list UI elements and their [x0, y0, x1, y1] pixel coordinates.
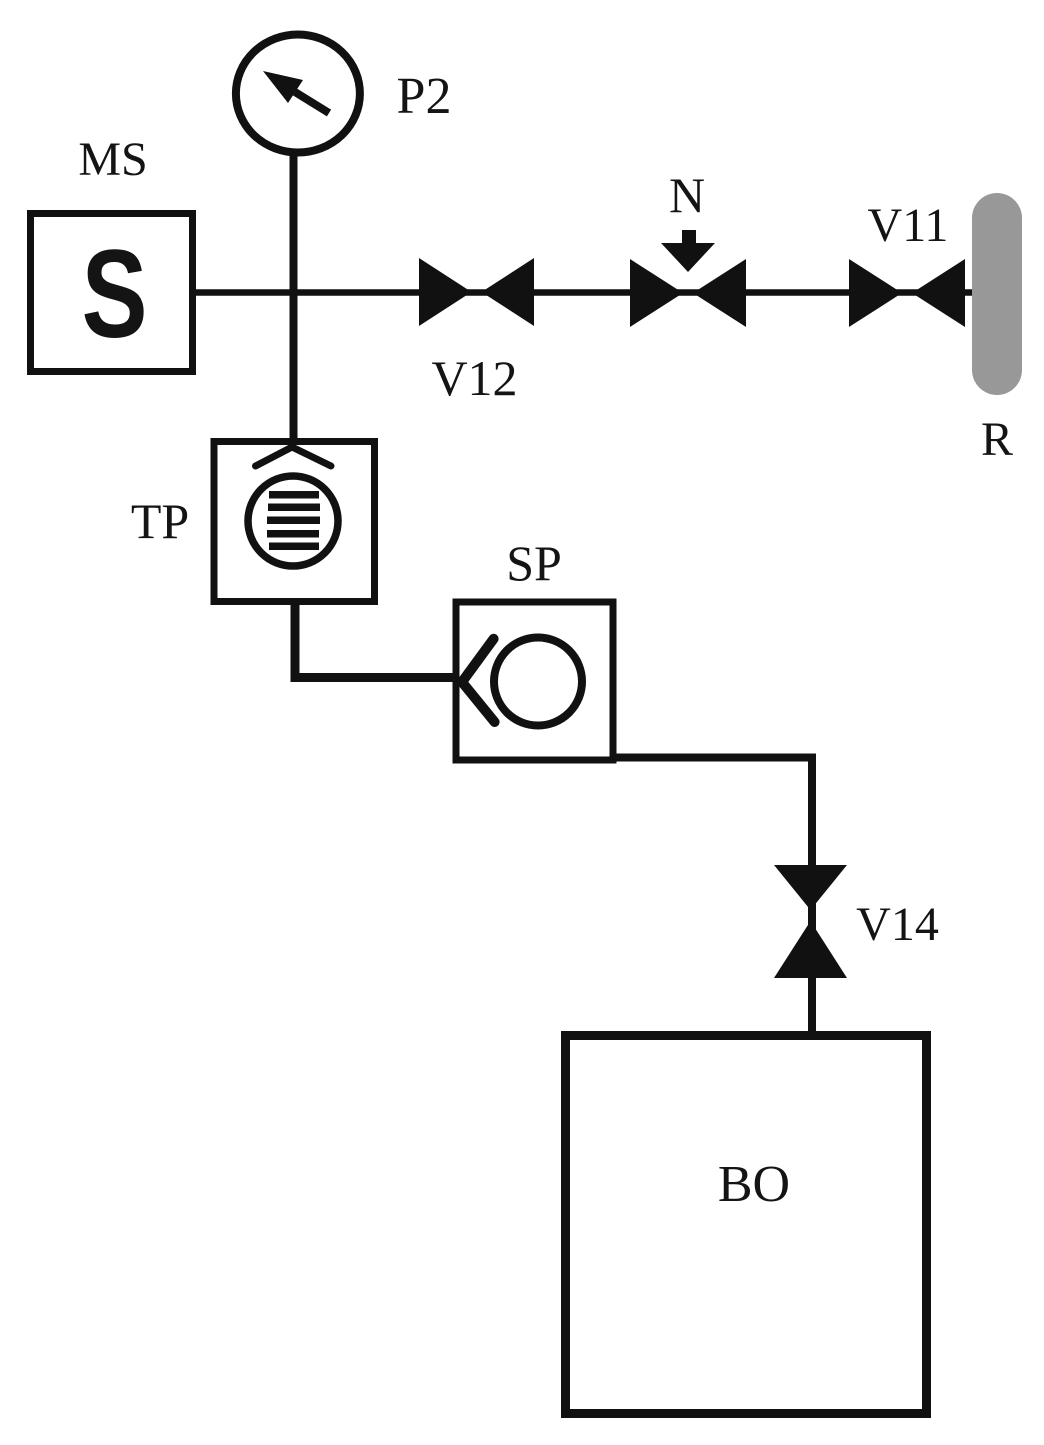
wire TP to SP	[295, 605, 461, 678]
chamber BO	[566, 1036, 927, 1414]
wire main horizontal line MS to R	[196, 289, 978, 296]
svg-text:V11: V11	[868, 199, 949, 252]
svg-text:V14: V14	[856, 898, 939, 951]
svg-text:P2: P2	[397, 68, 452, 125]
svg-text:V12: V12	[431, 350, 517, 406]
svg-text:N: N	[669, 167, 705, 223]
reservoir R	[972, 193, 1022, 395]
svg-text:SP: SP	[506, 535, 562, 591]
turbo pump rotor blades	[267, 491, 320, 550]
svg-text:R: R	[981, 413, 1013, 466]
scroll pump SP box	[456, 602, 613, 760]
valve V11	[849, 259, 965, 327]
turbo pump TP box	[214, 442, 375, 602]
box MS	[31, 214, 193, 372]
gauge P2 body	[236, 35, 360, 153]
turbo pump rotor circle	[248, 476, 338, 566]
valve V12	[419, 258, 534, 326]
needle valve N	[630, 230, 746, 327]
svg-text:BO: BO	[718, 1156, 790, 1213]
svg-text:MS: MS	[78, 133, 147, 186]
scroll pump circle	[494, 638, 582, 726]
svg-text:S: S	[82, 224, 148, 364]
gauge P2 needle	[263, 71, 329, 113]
scroll pump inlet arrow	[462, 639, 495, 722]
valve V14	[774, 865, 847, 978]
wire SP to V14	[612, 758, 812, 1034]
turbo pump inlet chevron	[256, 447, 332, 466]
svg-text:TP: TP	[131, 493, 189, 549]
wire gauge riser P2 to TP	[290, 150, 298, 442]
